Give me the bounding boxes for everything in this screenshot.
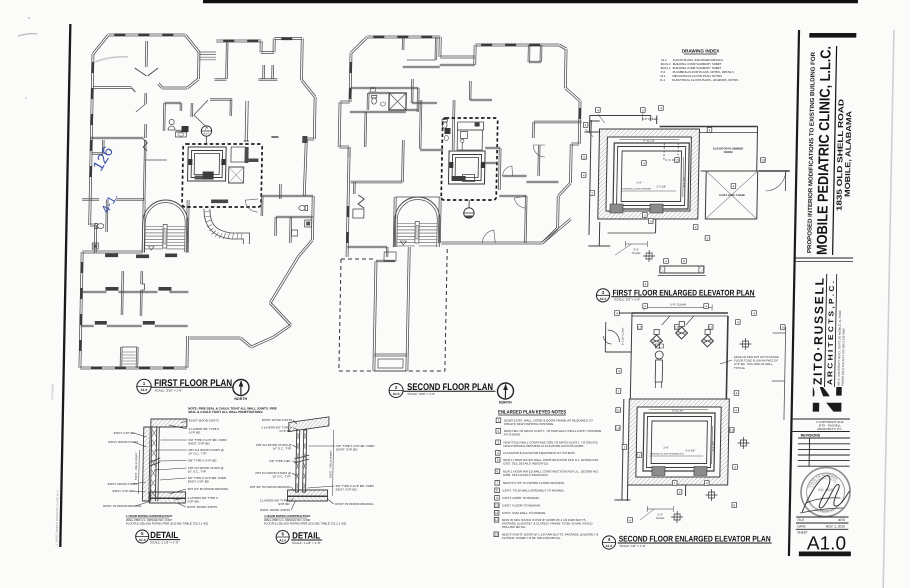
plan3 hvac chase room with X: [705, 171, 757, 219]
plan2 center rooms above elevator: [451, 100, 454, 150]
svg-text:4: 4: [660, 106, 662, 110]
svg-text:DETAIL: DETAIL: [150, 530, 179, 540]
svg-text:FLOOR & CEILING RATING PER 201: FLOOR & CEILING RATING PER 2012 IBC TABL…: [126, 522, 208, 526]
svg-text:EXIST. WOOD JOISTS: EXIST. WOOD JOISTS: [260, 508, 290, 512]
svg-text:NORTH: NORTH: [499, 401, 512, 405]
plan1 octagon room: [196, 52, 199, 79]
svg-text:6: 6: [497, 470, 499, 474]
svg-text:4: 4: [705, 304, 707, 308]
plan3 top-left wall stubs: [590, 120, 600, 122]
svg-text:11: 11: [616, 408, 620, 412]
svg-text:13: 13: [675, 158, 679, 162]
svg-text:8: 8: [733, 503, 735, 507]
plan2 walls around shaft: [485, 163, 497, 165]
svg-text:6'-1 1/2": 6'-1 1/2": [682, 177, 686, 187]
svg-text:ELECTRICAL FLOOR PLANS, LEGEND: ELECTRICAL FLOOR PLANS, LEGENDS, NOTES: [672, 78, 738, 82]
svg-text:2: 2: [497, 429, 499, 433]
plan4 keyed note markers: [615, 311, 620, 316]
svg-text:4: 4: [737, 320, 739, 324]
plan2 long bottom wall of right wing: [441, 243, 542, 245]
svg-text:2'-0 3/4": 2'-0 3/4": [685, 449, 695, 453]
svg-text:EXIST. WOOD JOISTS: EXIST. WOOD JOISTS: [189, 419, 219, 423]
svg-text:NEW FINISHED OPENING AT ELEVAT: NEW FINISHED OPENING AT ELEVATOR ACCESS …: [503, 444, 584, 448]
svg-text:GYP. BD.: GYP. BD.: [189, 431, 201, 435]
svg-text:EXIST. GYP. BD.: EXIST. GYP. BD.: [336, 488, 358, 492]
svg-text:EXIST. - FIELD VERIFY: EXIST. - FIELD VERIFY: [328, 450, 333, 478]
svg-text:2: 2: [623, 445, 625, 449]
sheet left border: [60, 24, 70, 547]
svg-text:7: 7: [618, 389, 620, 393]
plan4 diamond registers: [650, 335, 662, 347]
svg-text:10: 10: [761, 158, 765, 162]
plan4 bottom walls: [626, 485, 628, 501]
plan4 water heater figure: [655, 351, 663, 359]
underline of clinic title: [833, 46, 837, 255]
svg-text:1: 1: [497, 419, 499, 423]
svg-text:8'-1 1/2" CLEAR: 8'-1 1/2" CLEAR: [621, 327, 624, 345]
scan right edge shadow: [883, 30, 894, 588]
plan4 top lobby room walls: [632, 312, 728, 314]
svg-text:8: 8: [683, 259, 685, 263]
svg-text:2'-3 1/4": 2'-3 1/4": [656, 185, 666, 189]
svg-text:A1.0: A1.0: [204, 132, 210, 136]
svg-text:2'-4": 2'-4": [663, 446, 668, 450]
title block top bar: [809, 33, 856, 38]
svg-text:1: 1: [644, 213, 646, 217]
svg-text:FIRST FLOOR ENLARGED ELEVATOR: FIRST FLOOR ENLARGED ELEVATOR PLAN: [612, 288, 754, 297]
plan4 top dim 5-6 clear: [644, 305, 712, 311]
svg-text:16" O.C., TYP.: 16" O.C., TYP.: [188, 470, 207, 474]
north arrow 2: [497, 383, 513, 399]
svg-text:EXIST. GYP. BD.: EXIST. GYP. BD.: [336, 448, 358, 452]
plan2 X-shaft box: [389, 93, 406, 110]
svg-text:13: 13: [730, 428, 734, 432]
plan4 bottom dim: [647, 506, 673, 512]
svg-text:12: 12: [638, 325, 642, 329]
label: first floor enlarged elevator plan: [596, 289, 609, 302]
plan1 elevator shaft double-line: [188, 147, 227, 181]
plan1 dark band at corridor top: [211, 200, 228, 204]
svg-text:EXIST. GYP. BD.: EXIST. GYP. BD.: [114, 431, 136, 435]
svg-text:9: 9: [706, 236, 708, 240]
svg-text:NOV. 1, 2010: NOV. 1, 2010: [826, 524, 845, 528]
svg-text:4: 4: [497, 451, 499, 455]
svg-text:4: 4: [629, 518, 631, 522]
signature scribble: [802, 476, 850, 512]
svg-text:4: 4: [644, 304, 646, 308]
plan3 small dashed box top-right: [664, 143, 678, 160]
svg-text:ARCHITECTS, P.C.: ARCHITECTS, P.C.: [817, 427, 843, 431]
svg-text:EXIST. PLYWOOD DECKING: EXIST. PLYWOOD DECKING: [103, 504, 142, 508]
svg-text:ELEVATOR & ELEVATOR EQUIPMENT: ELEVATOR & ELEVATOR EQUIPMENT BY OTHERS.: [503, 451, 575, 455]
svg-text:9: 9: [496, 496, 498, 500]
plan2 left lower boundary + small rooms: [346, 147, 348, 257]
svg-text:EXIST. - FIELD VERIFY: EXIST. - FIELD VERIFY: [134, 452, 139, 480]
plan2 bottom-left dashed region: [339, 247, 447, 371]
svg-text:SCALE: 1/2" = 1'-0": SCALE: 1/2" = 1'-0": [614, 297, 640, 301]
plan2 toilet room: [368, 93, 389, 95]
plan4 door sill dark blocks: [652, 467, 665, 476]
svg-text:DATE: DATE: [797, 524, 805, 528]
svg-text:NEW FRT 3/4" PLYWOOD FLOOR DEC: NEW FRT 3/4" PLYWOOD FLOOR DECKING.: [503, 481, 565, 485]
svg-text:EXIST. HVAC CHASE: EXIST. HVAC CHASE: [719, 193, 745, 197]
svg-text:EXIST. GYP. BD.: EXIST. GYP. BD.: [188, 480, 210, 484]
plan1 outer boundary: [94, 36, 109, 55]
svg-text:7: 7: [496, 481, 498, 485]
plan1 shaft door jambs dark: [188, 159, 192, 165]
svg-text:ROOM: ROOM: [724, 150, 733, 154]
svg-text:FOR PERMIT: FOR PERMIT: [50, 384, 54, 400]
plan1 wing interior partitions: [81, 292, 106, 294]
svg-text:5/8" TYPE X GYP. BD.: 5/8" TYPE X GYP. BD.: [188, 459, 217, 463]
svg-text:CLEAR: CLEAR: [632, 251, 641, 255]
svg-text:6'-1 1/2": 6'-1 1/2": [711, 441, 715, 451]
svg-text:4: 4: [597, 108, 599, 112]
svg-text:4: 4: [643, 161, 645, 165]
svg-text:4: 4: [709, 128, 711, 132]
svg-text:EXIST. GYP. BD.: EXIST. GYP. BD.: [188, 442, 210, 446]
plan1 curved corridor: [209, 209, 250, 244]
svg-text:FRT 3/4" PLYWOOD DECKING: FRT 3/4" PLYWOOD DECKING: [250, 485, 292, 489]
plan2 top-left wall from boundary: [350, 88, 418, 90]
svg-text:4: 4: [585, 123, 587, 127]
svg-text:ZITO·RUSSELL: ZITO·RUSSELL: [811, 277, 827, 385]
plan1 corridor walls: [93, 87, 131, 89]
architect seal circle: [801, 468, 851, 517]
plan2 elevator shaft double-line: [448, 151, 485, 184]
plan1 bottom-right rooms: [262, 196, 313, 198]
plan3 elevator car: [621, 151, 681, 202]
svg-text:12: 12: [495, 518, 499, 522]
svg-text:A1.0: A1.0: [279, 539, 286, 543]
plan1 small left fixtures: [95, 223, 104, 228]
svg-text:FLOOR TO BE FLUSH W/ FACE OF: FLOOR TO BE FLUSH W/ FACE OF: [734, 359, 778, 363]
plan1 X-room below-right of shaft: [228, 167, 243, 183]
svg-text:NORTH: NORTH: [234, 397, 247, 401]
svg-text:FILE: FILE: [797, 518, 804, 522]
svg-text:EXIST. CMU WALL TO REMAIN.: EXIST. CMU WALL TO REMAIN.: [502, 511, 546, 515]
svg-text:HOLLOW METAL.: HOLLOW METAL.: [502, 525, 527, 529]
plan1 wing door leaf bars (dark): [105, 254, 118, 258]
svg-text:4: 4: [695, 225, 697, 229]
plan3 outer existing wall left: [589, 120, 591, 235]
svg-text:A1.0: A1.0: [139, 538, 146, 542]
plan1 toilet + sink: [169, 119, 174, 124]
plan1 room upper-right in dashed box: [231, 147, 245, 162]
svg-text:10: 10: [495, 504, 499, 508]
svg-text:CLEAR: CLEAR: [656, 516, 665, 520]
plan4 inner room walls: [643, 413, 715, 471]
plan3 right walls + door: [759, 170, 790, 172]
plan1 connector hatch: [199, 51, 216, 53]
plan2 tall shaft in dashed region: [373, 261, 375, 371]
plan1 right steps: [306, 137, 314, 139]
plan1 top-left door V: [194, 100, 208, 115]
svg-text:12: 12: [709, 325, 713, 329]
svg-text:SCALE: 1/2" = 1'-0": SCALE: 1/2" = 1'-0": [619, 544, 645, 548]
svg-text:DETAIL: DETAIL: [292, 531, 321, 541]
plan1 right wing interior: [225, 41, 228, 79]
svg-text:EXIST. PLYWOOD DECKING: EXIST. PLYWOOD DECKING: [335, 502, 374, 506]
plan1 corridor ticks: [204, 212, 243, 240]
plan3 inner room walls: [613, 143, 689, 209]
svg-text:9: 9: [734, 465, 736, 469]
plan2 NE room wall: [534, 122, 582, 124]
plan1 bottom-right zigzag: [269, 256, 297, 302]
svg-text:1: 1: [638, 453, 640, 457]
file/date/sheet rows: [796, 516, 849, 518]
svg-text:U338. SEE DETAILS INDICATED.: U338. SEE DETAILS INDICATED.: [503, 473, 549, 477]
svg-text:CREATE NEW FINISHED OPENING.: CREATE NEW FINISHED OPENING.: [504, 422, 554, 426]
plan3 bottom dim 3-4 clear: [625, 241, 647, 247]
svg-text:4: 4: [665, 259, 667, 263]
plan3 bottom sill detail: [660, 266, 704, 273]
svg-text:FINISHED CLEAR OPENING: FINISHED CLEAR OPENING: [622, 188, 651, 191]
svg-text:SECOND FLOOR ENLARGED ELEVATOR: SECOND FLOOR ENLARGED ELEVATOR PLAN: [619, 535, 771, 544]
north arrow 1: [233, 380, 249, 396]
svg-text:EXIST. WOOD JOISTS: EXIST. WOOD JOISTS: [187, 505, 217, 509]
svg-text:EXIST. DOOR TO REMAIN.: EXIST. DOOR TO REMAIN.: [502, 496, 539, 500]
svg-text:2'-4": 2'-4": [636, 181, 641, 185]
svg-text:5: 5: [497, 458, 499, 462]
svg-text:A1.0: A1.0: [807, 534, 846, 555]
svg-text:4: 4: [735, 408, 737, 412]
plan3 leader ticks: [585, 113, 642, 137]
svg-text:EXIST. GYP. BD.: EXIST. GYP. BD.: [113, 489, 135, 493]
plan2 corridor/interior: [350, 112, 406, 114]
plan3 bottom walls: [598, 222, 600, 246]
detail 5 drawing: [142, 419, 187, 503]
plan2 shaft door jambs dark: [449, 162, 453, 168]
svg-text:3: 3: [650, 219, 652, 223]
svg-text:GYP. BD.: GYP. BD.: [187, 500, 199, 504]
plan2 door arcs right rooms: [482, 230, 495, 243]
label: second floor plan: [389, 384, 403, 398]
title block left border: [789, 30, 799, 556]
svg-text:8: 8: [496, 489, 498, 493]
svg-text:A1.0: A1.0: [141, 388, 148, 392]
plan2 symbol below dashed box: [468, 200, 470, 208]
svg-text:GYP. BD., THIS SIDE OF WALL,: GYP. BD., THIS SIDE OF WALL,: [734, 362, 773, 366]
svg-text:AS SHOWN.: AS SHOWN.: [504, 433, 521, 437]
svg-text:13: 13: [675, 325, 679, 329]
svg-text:4: 4: [706, 481, 708, 485]
svg-text:DRAWING INDEX: DRAWING INDEX: [682, 49, 721, 54]
plan1 dashed enlarged-area box: [182, 144, 262, 207]
svg-text:16" O.C., TYP.: 16" O.C., TYP.: [273, 447, 292, 451]
svg-text:3: 3: [679, 490, 681, 494]
plan1 mid-right step jog dark: [302, 136, 307, 143]
svg-text:13: 13: [494, 533, 498, 537]
label: second floor enlarged elevator plan: [602, 536, 615, 549]
label: first floor plan: [137, 379, 152, 393]
plan4 main hatched wall ring: [628, 399, 730, 485]
detail 6 drawing: [287, 417, 329, 501]
svg-text:SEAL & CAULK TIGHT ALL WALL PE: SEAL & CAULK TIGHT ALL WALL PENETRATIONS…: [188, 410, 263, 414]
divider below logo: [793, 418, 850, 420]
plan1 stair: [142, 200, 188, 252]
plan4 left partial walls/arcs: [607, 330, 619, 342]
svg-text:SCALE: 1 1/2" = 1'-0": SCALE: 1 1/2" = 1'-0": [292, 541, 321, 545]
svg-text:9: 9: [642, 108, 644, 112]
svg-text:U337. SEE DETAILS INDICATED.: U337. SEE DETAILS INDICATED.: [503, 462, 549, 466]
svg-text:GYP. BD.: GYP. BD.: [280, 429, 292, 433]
svg-text:16" O.C., TYP.: 16" O.C., TYP.: [272, 475, 291, 479]
divider below address: [796, 257, 854, 259]
plan2 rooms inside dashed box: [458, 122, 484, 130]
svg-text:6'-11 1/4": 6'-11 1/4": [643, 139, 655, 143]
svg-text:GYP. BD.: GYP. BD.: [278, 502, 290, 506]
plan1 wing bottom closet w/ steps: [119, 347, 121, 368]
plan2 right wing top: [475, 45, 559, 47]
svg-text:8'-01 3/4": 8'-01 3/4": [672, 409, 684, 413]
plan2 outer boundary top-left: [352, 38, 368, 54]
svg-text:A1.0: A1.0: [606, 544, 613, 548]
svg-text:3'-4": 3'-4": [633, 248, 639, 252]
svg-text:4: 4: [736, 391, 738, 395]
svg-text:9: 9: [782, 325, 784, 329]
svg-text:8'-0" CLEAR: 8'-0" CLEAR: [642, 117, 658, 121]
plan1 bottom-left wing: [82, 252, 142, 254]
svg-text:16" O.C., TYP.: 16" O.C., TYP.: [188, 452, 207, 456]
bottom black bar: [799, 552, 851, 557]
svg-text:FRT 3/4" PLYWOOD DECKING: FRT 3/4" PLYWOOD DECKING: [188, 487, 230, 491]
svg-text:4: 4: [618, 369, 620, 373]
svg-text:2'-4": 2'-4": [657, 513, 663, 517]
svg-text:2: 2: [591, 191, 593, 195]
plan4 vertical wall line at right (title block side): [784, 327, 786, 420]
scanner top edge line: [203, 0, 858, 3]
label: detail 5: [136, 530, 149, 543]
svg-text:SCALE: 3/16" = 1'-0": SCALE: 3/16" = 1'-0": [407, 392, 435, 396]
svg-text:5'-6" CLEAR: 5'-6" CLEAR: [670, 303, 686, 307]
svg-text:A1.0: A1.0: [600, 297, 607, 301]
plan4 outer existing wall left: [622, 399, 624, 500]
plan4 crosses: [739, 338, 751, 350]
svg-text:4: 4: [732, 184, 734, 188]
svg-text:4: 4: [583, 173, 585, 177]
svg-text:SCALE: 3/16" = 1'-0": SCALE: 3/16" = 1'-0": [154, 388, 182, 392]
svg-text:5/8" TYPE X BD.: 5/8" TYPE X BD.: [269, 459, 291, 463]
enlarged plan 3: hatched wall ring: [598, 129, 700, 219]
svg-text:EDGE OF NEW FRT 3/4" PLYWOOD: EDGE OF NEW FRT 3/4" PLYWOOD: [734, 355, 779, 359]
plan2 dashed enlarged-area box: [441, 118, 498, 200]
svg-text:4: 4: [645, 282, 647, 286]
plan1 wall above dashed box: [244, 101, 247, 141]
plan3 cross symbol below: [643, 250, 655, 262]
svg-text:EXIST. WOOD JOISTS: EXIST. WOOD JOISTS: [262, 418, 292, 422]
label: detail 6: [276, 531, 289, 544]
svg-text:E-1: E-1: [660, 78, 665, 82]
svg-text:3: 3: [497, 441, 499, 445]
plan3 keyed note markers: [583, 123, 588, 128]
plan1 middle rooms: [162, 103, 165, 131]
svg-text:EXIST. FLOOR TO REMAIN.: EXIST. FLOOR TO REMAIN.: [502, 504, 541, 508]
svg-text:REVISIONS: REVISIONS: [801, 434, 821, 438]
svg-text:4: 4: [616, 311, 618, 315]
plan2 right big room interior: [537, 145, 540, 176]
plan3 door sill dark blocks: [610, 204, 623, 213]
svg-text:11: 11: [495, 511, 499, 515]
ZITO-RUSSELL Z logo mark: [813, 387, 815, 396]
svg-text:FLOOR & CEILING RATING PER 201: FLOOR & CEILING RATING PER 2012 IBC TABL…: [264, 522, 346, 526]
svg-text:SCALE: 1 1/2" = 1'-0": SCALE: 1 1/2" = 1'-0": [150, 541, 179, 545]
plan4 door openings on top wall: [662, 316, 694, 325]
svg-text:MOBILE, ALABAMA: MOBILE, ALABAMA: [843, 110, 854, 197]
svg-text:FINISHED CLEAR OPENING (W.): FINISHED CLEAR OPENING (W.): [650, 453, 684, 456]
svg-text:1: 1: [674, 481, 676, 485]
svg-text:TYPICAL: TYPICAL: [734, 366, 746, 370]
svg-text:ENLARGED PLAN KEYED NOTES: ENLARGED PLAN KEYED NOTES: [498, 410, 567, 416]
svg-text:4: 4: [753, 311, 755, 315]
svg-text:CLOSER. FRAME TO BE HOLLOW MET: CLOSER. FRAME TO BE HOLLOW METAL.: [502, 536, 562, 540]
svg-text:11: 11: [582, 155, 586, 159]
svg-text:10: 10: [616, 426, 620, 430]
svg-text:4070: 4070: [838, 518, 845, 522]
plan2 stairs: [394, 197, 440, 247]
svg-text:EXIST. STUD WALL ASSEMBLY TO R: EXIST. STUD WALL ASSEMBLY TO REMAIN.: [503, 489, 565, 493]
keyed notes items: [496, 418, 501, 423]
svg-text:A1.0: A1.0: [393, 392, 400, 396]
plan1 circled fixture symbol: [201, 126, 212, 136]
